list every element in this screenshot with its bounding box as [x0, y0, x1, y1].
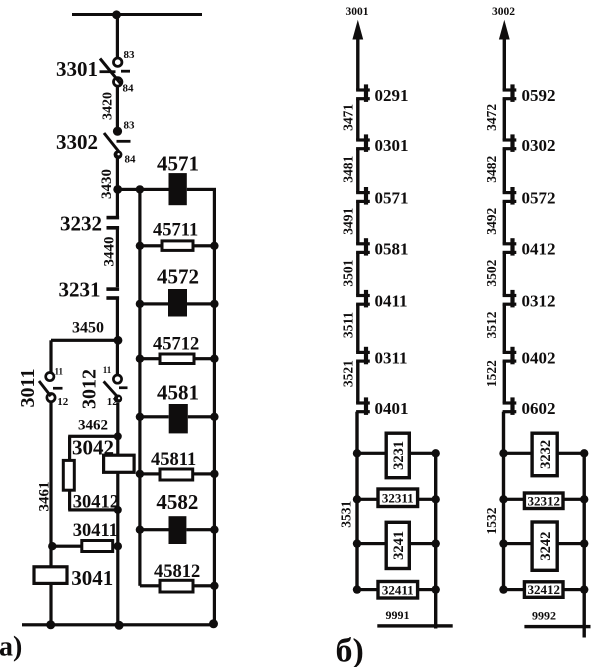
svg-text:4582: 4582	[156, 490, 198, 514]
wire 30412 branch bottom	[68, 508, 118, 511]
wire 32411 row	[357, 588, 378, 591]
node 45712 left	[136, 355, 144, 363]
node branch bottom	[114, 506, 122, 514]
node bottom bus right corner	[209, 619, 218, 628]
relay 3232	[532, 433, 557, 476]
bus 9992	[524, 625, 590, 628]
wire segment above contact 0572	[503, 149, 506, 193]
svg-text:0572: 0572	[522, 189, 556, 208]
wire 3242 row	[504, 542, 533, 545]
wire segment above contact 0301	[356, 99, 359, 140]
svg-text:1522: 1522	[484, 360, 499, 387]
wire left rail of coil column	[138, 189, 141, 585]
power arrow 3002	[499, 20, 510, 40]
contact 3011	[39, 373, 63, 402]
node branch top	[114, 432, 122, 440]
node 32412 right	[580, 585, 588, 593]
wire 4572 row	[140, 302, 168, 305]
svg-text:3531: 3531	[339, 501, 354, 528]
node 3242 right	[580, 539, 588, 547]
svg-text:45711: 45711	[153, 221, 198, 241]
node 4572 right	[210, 300, 218, 308]
wire 45811 row	[140, 472, 160, 475]
node 32411 left	[353, 585, 361, 593]
svg-text:3232: 3232	[60, 212, 102, 236]
wire 4582 row	[140, 528, 169, 531]
svg-text:0401: 0401	[375, 399, 409, 418]
node junction 3430/4571 row	[113, 185, 122, 194]
svg-text:3512: 3512	[484, 311, 499, 338]
svg-text:3232: 3232	[538, 440, 554, 469]
resistor 45711	[162, 241, 193, 251]
svg-text:0291: 0291	[375, 86, 409, 105]
svg-text:84: 84	[125, 154, 137, 166]
svg-text:а): а)	[0, 632, 22, 663]
relay 32312	[524, 493, 563, 509]
svg-text:11: 11	[55, 367, 64, 377]
wire 4581 row	[140, 415, 169, 418]
svg-text:3241: 3241	[391, 531, 407, 560]
svg-text:32412: 32412	[527, 582, 560, 597]
svg-text:84: 84	[123, 83, 135, 95]
svg-text:83: 83	[124, 49, 136, 61]
node top bus junction	[112, 10, 121, 19]
svg-text:3231: 3231	[59, 277, 101, 301]
switch 3301	[100, 58, 131, 86]
resistor 45712	[160, 354, 194, 364]
svg-text:3471: 3471	[341, 104, 356, 131]
svg-text:3492: 3492	[484, 207, 499, 234]
svg-text:3521: 3521	[341, 360, 356, 387]
contact 3232	[107, 216, 120, 230]
svg-text:12: 12	[57, 396, 69, 408]
svg-text:3502: 3502	[484, 259, 499, 286]
wire segment above contact 0311	[356, 304, 359, 352]
relay 3242	[532, 522, 557, 570]
wire 45812 row	[140, 584, 160, 587]
wire segment above contact 0571	[356, 149, 359, 193]
contact 0312	[503, 290, 517, 308]
svg-text:3420: 3420	[101, 92, 116, 120]
node bottom bus left	[46, 620, 55, 629]
relay coil 4582	[169, 516, 187, 544]
wire 3450 horizontal	[51, 339, 119, 342]
wire 45711 row	[140, 244, 162, 247]
node 45711 left	[136, 242, 144, 250]
svg-text:3491: 3491	[341, 207, 356, 234]
contact 0412	[503, 238, 517, 255]
relay 3231	[386, 433, 409, 478]
svg-text:9992: 9992	[532, 609, 556, 623]
svg-text:0402: 0402	[522, 348, 556, 367]
svg-text:3482: 3482	[484, 156, 499, 183]
svg-text:1532: 1532	[484, 507, 499, 534]
node 32412 left	[499, 585, 507, 593]
wire down to 3011	[49, 340, 52, 372]
node 45812 right	[210, 582, 218, 590]
node 30411 right	[114, 542, 122, 550]
contact 0592	[503, 84, 517, 102]
svg-text:3012: 3012	[79, 369, 101, 409]
wire 30411 row	[52, 545, 118, 548]
contact 0571	[356, 187, 370, 205]
node bottom bus mid	[115, 621, 124, 630]
relay 3042	[104, 455, 135, 472]
wire segment above contact 0581	[356, 201, 359, 243]
svg-text:0312: 0312	[522, 291, 556, 310]
relay coil 4572	[168, 289, 187, 317]
node 4581 left	[136, 413, 144, 421]
wire ladder right rail 3231 group	[434, 453, 437, 628]
svg-text:б): б)	[336, 633, 364, 667]
wire 30412 branch top	[68, 435, 118, 438]
wire segment above contact 0592	[503, 36, 506, 90]
wire 3232 row	[504, 452, 533, 455]
wire segment above contact 0302	[503, 99, 506, 140]
svg-text:0412: 0412	[522, 240, 556, 259]
svg-text:0592: 0592	[522, 86, 556, 105]
wire 3011 down to bottom bus	[49, 402, 52, 625]
svg-text:3501: 3501	[341, 259, 356, 286]
node 3450 junction	[114, 336, 123, 345]
node 32311 left	[353, 495, 361, 503]
contact 0602	[503, 397, 517, 415]
svg-text:0411: 0411	[375, 291, 408, 310]
bottom bus of part a	[22, 623, 216, 626]
wire 0602 to ladder	[502, 412, 505, 590]
node 32311 right	[432, 495, 440, 503]
wire segment above contact 0312	[503, 252, 506, 295]
contact 0311	[356, 347, 370, 365]
wire to contact 3232	[116, 189, 119, 216]
svg-text:4571: 4571	[157, 151, 199, 175]
node 32312 left	[499, 495, 507, 503]
wire 4571 row right	[187, 188, 216, 191]
wire 32412 row	[504, 588, 525, 591]
wire branch left lower	[68, 490, 71, 510]
relay 32412	[524, 582, 563, 598]
node 4581 right	[210, 413, 218, 421]
svg-text:3242: 3242	[538, 532, 554, 561]
svg-text:0581: 0581	[375, 240, 409, 259]
node 32411 right	[432, 585, 440, 593]
node 3231 right	[432, 449, 440, 457]
contact 3012	[104, 375, 128, 403]
contact 0302	[503, 134, 517, 152]
relay 3241	[386, 522, 409, 568]
node 45811 left	[136, 470, 144, 478]
node 3241 left	[353, 539, 361, 547]
resistor 45812	[160, 580, 193, 592]
wire 4571 row left	[117, 188, 168, 191]
svg-text:32312: 32312	[527, 493, 560, 508]
svg-text:3472: 3472	[484, 104, 499, 131]
svg-text:0311: 0311	[375, 348, 408, 367]
node 4582 left	[136, 526, 144, 534]
svg-text:32411: 32411	[382, 582, 414, 597]
relay 32311	[378, 489, 418, 507]
svg-text:3481: 3481	[341, 156, 356, 183]
svg-text:3231: 3231	[391, 441, 407, 470]
node 3232 right	[580, 449, 588, 457]
wire 45712 row	[140, 357, 160, 360]
wire branch left upper	[68, 436, 71, 460]
node 45811 right	[210, 470, 218, 478]
node 30411 left	[48, 542, 56, 550]
wire segment above contact 0402	[503, 304, 506, 352]
contact 0291	[356, 84, 370, 102]
resistor 45811	[160, 469, 193, 480]
svg-text:3001: 3001	[346, 6, 369, 18]
resistor 30412	[63, 460, 74, 490]
svg-text:4572: 4572	[157, 265, 199, 289]
svg-text:83: 83	[124, 120, 136, 132]
wire segment above contact 0602	[503, 361, 506, 403]
contact 0402	[503, 347, 517, 365]
contact 0581	[356, 238, 370, 255]
svg-text:3041: 3041	[71, 566, 113, 590]
wire 3241 row	[357, 542, 386, 545]
wire ladder right rail 3232 group	[583, 453, 586, 637]
svg-text:3461: 3461	[37, 482, 53, 512]
wire segment above contact 0291	[356, 36, 359, 90]
node 3231 left	[353, 449, 361, 457]
wire segment above contact 0412	[503, 201, 506, 243]
node 45712 right	[210, 355, 218, 363]
svg-text:3440: 3440	[102, 237, 118, 267]
svg-text:0571: 0571	[375, 189, 409, 208]
svg-text:32311: 32311	[382, 490, 414, 505]
svg-text:45811: 45811	[151, 450, 196, 470]
power arrow 3001	[352, 20, 363, 40]
svg-text:0602: 0602	[522, 399, 556, 418]
node 4572 left	[136, 300, 144, 308]
wire 0401 to ladder	[355, 412, 358, 590]
wire top bus to 3301	[116, 15, 119, 59]
resistor 30411	[82, 541, 113, 552]
svg-text:3302: 3302	[56, 130, 98, 154]
contact 0301	[356, 134, 370, 152]
wire 3420	[116, 86, 119, 127]
node 32312 right	[580, 495, 588, 503]
svg-text:3462: 3462	[78, 418, 108, 434]
svg-text:3430: 3430	[99, 169, 115, 199]
switch 3302	[104, 127, 131, 159]
wire segment above contact 0411	[356, 252, 359, 295]
contact 3231	[106, 287, 119, 300]
relay 32411	[378, 582, 418, 599]
bus 9991	[377, 624, 452, 627]
wire 32312 row	[504, 498, 525, 501]
svg-text:0302: 0302	[522, 136, 556, 155]
svg-text:9991: 9991	[386, 608, 410, 622]
svg-text:3511: 3511	[341, 312, 356, 339]
node 3241 right	[432, 539, 440, 547]
wire 3012 down to 3042	[116, 403, 119, 455]
svg-text:4581: 4581	[157, 381, 199, 405]
node 4582 right	[210, 526, 218, 534]
wire 3231 row	[357, 452, 386, 455]
wire 32311 row	[357, 498, 378, 501]
wire 3440	[116, 228, 119, 287]
relay coil 4571	[169, 173, 187, 205]
svg-text:0301: 0301	[375, 136, 409, 155]
relay 3041	[34, 567, 67, 584]
wire right rail of coil column	[213, 189, 216, 624]
svg-text:3301: 3301	[56, 57, 98, 81]
node left rail top	[136, 185, 144, 193]
wire segment above contact 0401	[356, 361, 359, 403]
wire 3042 to bottom bus	[116, 472, 119, 625]
contact 0411	[356, 290, 370, 308]
wire down to 3012	[116, 340, 119, 375]
svg-text:30412: 30412	[73, 492, 119, 512]
wire 3450 vertical	[116, 298, 119, 342]
node 45711 right	[210, 242, 218, 250]
top bus	[72, 13, 202, 16]
svg-text:3450: 3450	[72, 320, 104, 337]
svg-text:3011: 3011	[17, 369, 39, 408]
node 3242 left	[499, 539, 507, 547]
node 3232 left	[499, 449, 507, 457]
contact 0401	[356, 397, 370, 415]
relay coil 4581	[169, 404, 188, 433]
svg-text:30411: 30411	[73, 521, 118, 541]
svg-text:45712: 45712	[153, 335, 199, 355]
svg-text:3002: 3002	[492, 6, 515, 18]
wire 3430	[116, 158, 119, 190]
contact 0572	[503, 187, 517, 205]
svg-text:11: 11	[103, 365, 112, 375]
